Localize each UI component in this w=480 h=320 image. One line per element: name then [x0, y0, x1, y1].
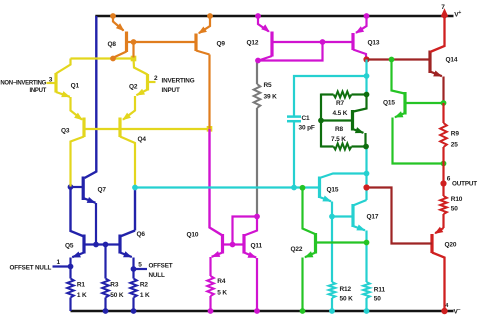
svg-text:R12: R12: [340, 286, 352, 293]
transistor Q1: [54, 73, 57, 93]
svg-text:Q1: Q1: [71, 83, 80, 90]
capacitor C1: [287, 115, 301, 118]
node Q15 collector junction: [389, 57, 395, 63]
wire Q3 collector to Q7 base: [71, 137, 85, 187]
resistor R9: [440, 123, 447, 147]
transistor Q9: [207, 13, 213, 19]
node Q12 collector junction: [255, 58, 261, 64]
resistor R7: [334, 92, 352, 98]
svg-text:25: 25: [451, 142, 458, 149]
transistor Q4: [118, 118, 121, 138]
wire Q13 collector node to Q14 base: [367, 58, 431, 60]
svg-text:1: 1: [57, 259, 61, 266]
wire R3 bottom: [104, 298, 106, 312]
wire Q11 emitter to V-: [256, 258, 258, 311]
wire R12 to V- rail: [331, 298, 333, 311]
node C1 top junction: [364, 73, 370, 79]
svg-text:INPUT: INPUT: [162, 87, 180, 94]
wire R4 to V- rail: [209, 296, 211, 311]
svg-text:6: 6: [447, 175, 451, 182]
wire multiplier left side: [320, 94, 322, 148]
wire Q9 collector node to Q10 collector: [210, 129, 223, 235]
node Q7 emitter junction: [93, 242, 99, 248]
wire R10 to Q20 emitter: [442, 214, 444, 228]
wire Q17 base lead: [332, 215, 353, 217]
resistor R2: [130, 279, 137, 298]
svg-text:Q11: Q11: [251, 243, 263, 250]
svg-text:7: 7: [441, 4, 445, 11]
svg-text:50 K: 50 K: [340, 295, 354, 302]
node R3 top junction: [103, 242, 109, 248]
wire Q13 node to VBE multiplier: [365, 60, 367, 95]
transistor Q14: [428, 51, 431, 74]
pin 1 OFFSET NULL lead: [53, 265, 71, 267]
node output pin 6: [440, 180, 446, 186]
wire Q4 node to Q15 base: [135, 186, 319, 188]
svg-text:R4: R4: [217, 278, 226, 285]
wire Q15 collector: [392, 60, 405, 94]
wire Q1 emitter to Q3 emitter: [71, 97, 83, 120]
wire Q22 collector: [303, 188, 316, 234]
wire Q22 emitter to V- rail: [301, 258, 303, 312]
wire Q8 base to collector node: [132, 42, 134, 58]
wire V+ rail: [95, 15, 453, 18]
svg-text:R10: R10: [451, 196, 463, 203]
transistor Q22: [314, 233, 317, 254]
node R5 / Q11 collector junction: [254, 214, 260, 220]
wire Q11 diode connection: [233, 217, 258, 245]
node Q22 base junction: [364, 240, 370, 246]
wire Q15 emitter to R12: [331, 217, 333, 283]
svg-text:NON−INVERTING: NON−INVERTING: [0, 81, 46, 87]
node Q8 base junction: [131, 39, 137, 45]
svg-text:30 pF: 30 pF: [299, 125, 315, 132]
svg-text:NULL: NULL: [149, 272, 165, 279]
wire C1 bottom branch: [293, 121, 295, 187]
svg-text:OFFSET: OFFSET: [149, 263, 173, 270]
node multiplier base junction: [318, 118, 324, 124]
wire Q6 emitter to R2: [132, 258, 134, 279]
svg-text:R2: R2: [140, 282, 149, 289]
pin 5 OFFSET NULL lead: [134, 268, 148, 270]
resistor R5: [254, 84, 261, 108]
wire Q12/Q13 base rail: [272, 41, 353, 43]
transistor Q3: [82, 118, 85, 138]
svg-text:R11: R11: [374, 287, 386, 294]
svg-text:Q17: Q17: [367, 213, 379, 220]
node Q15 base / Q14 emitter junction: [441, 100, 447, 106]
wire Q1/Q2 collector node: [71, 57, 134, 59]
node Q3 collector / Q7 base junction: [68, 184, 74, 190]
wire Q5 emitter to R1: [69, 258, 71, 279]
wire Q5/Q6 base rail: [84, 243, 120, 245]
svg-text:Q15: Q15: [383, 100, 395, 107]
resistor R11: [363, 282, 370, 298]
svg-text:50: 50: [451, 206, 458, 213]
transistor Q17: [351, 204, 354, 227]
svg-text:OUTPUT: OUTPUT: [452, 180, 477, 187]
svg-text:Q4: Q4: [138, 136, 147, 143]
svg-text:Q14: Q14: [446, 57, 458, 64]
resistor R8: [334, 144, 352, 150]
wire R1 to V- rail: [69, 298, 71, 312]
transistor Q11: [242, 234, 245, 254]
wire V- rail: [71, 310, 454, 313]
svg-text:1 K: 1 K: [140, 292, 150, 299]
node R8 right junction: [363, 144, 369, 150]
wire R5 to Q11 collector: [256, 108, 258, 217]
node Q13 collector junction: [363, 56, 369, 62]
transistor Q16 (VBE multiplier): [321, 119, 353, 121]
svg-text:2: 2: [154, 75, 158, 82]
wire R11 to V- rail: [365, 298, 367, 311]
transistor Q20: [435, 228, 443, 233]
node pin 1 junction: [68, 264, 74, 270]
svg-text:7.5 K: 7.5 K: [331, 136, 346, 143]
svg-text:R9: R9: [451, 131, 460, 138]
wire C1 top branch: [294, 76, 367, 116]
pin 7 V+ terminal: [441, 8, 449, 17]
wire V+ to Q7 collector: [85, 16, 97, 178]
node input pair collector junction: [131, 56, 137, 62]
transistor Q12: [255, 13, 261, 19]
wire Q4 collector: [120, 137, 135, 188]
node Q10/Q11 base junction: [230, 242, 236, 248]
transistor Q6: [118, 235, 121, 254]
svg-text:Q3: Q3: [61, 128, 70, 135]
resistor R4: [207, 276, 214, 296]
svg-text:INVERTING: INVERTING: [162, 78, 195, 85]
svg-text:50: 50: [374, 295, 381, 302]
svg-text:OFFSET NULL: OFFSET NULL: [10, 264, 52, 271]
node Q15 collector junction: [364, 171, 370, 177]
transistor Q15 (cyan): [318, 177, 321, 199]
wire Q12 diode connection: [258, 42, 323, 61]
wire Q15 emitter to output node: [393, 118, 444, 164]
node Q12 base junction: [320, 39, 326, 45]
svg-text:Q12: Q12: [247, 40, 259, 47]
transistor Q13: [364, 13, 370, 19]
wire Q14 emitter: [442, 77, 444, 104]
wire R9 top: [442, 103, 444, 123]
resistor R3: [102, 279, 109, 298]
wire VBE multiplier to Q17 collector: [365, 147, 367, 201]
svg-text:R1: R1: [77, 282, 86, 289]
svg-text:Q22: Q22: [291, 246, 303, 253]
node Q15 emitter / Q17 base junction: [329, 214, 335, 220]
svg-text:Q13: Q13: [368, 40, 380, 47]
svg-text:5 K: 5 K: [217, 290, 227, 297]
svg-text:5: 5: [138, 261, 142, 268]
wire multiplier bottom side: [321, 145, 334, 147]
wire Q7 base node to Q5 collector: [71, 187, 85, 237]
svg-text:3: 3: [49, 76, 53, 83]
wire Q10 emitter to R4: [209, 257, 211, 276]
wire Q17 emitter to R11: [365, 231, 367, 283]
resistor R10: [440, 196, 447, 214]
transistor Q8: [110, 13, 116, 19]
svg-text:R7: R7: [336, 100, 345, 107]
svg-text:R8: R8: [335, 126, 344, 133]
node Q22 collector junction: [300, 185, 306, 191]
svg-text:Q7: Q7: [98, 187, 107, 194]
wire R2 bottom: [132, 298, 134, 312]
wire R9 to output node: [442, 147, 444, 184]
wire R3 top: [104, 245, 106, 279]
svg-text:Q15: Q15: [327, 186, 339, 193]
wire Q3/Q4 base rail: [84, 128, 210, 130]
wire Q8/Q9 base rail: [134, 41, 197, 43]
node R7 right junction: [364, 92, 370, 98]
wire Q10/Q11 base rail: [223, 243, 245, 245]
wire Q12 collector to R5: [256, 61, 258, 85]
wire multiplier top side: [321, 93, 334, 95]
svg-text:Q9: Q9: [217, 41, 226, 48]
svg-text:Q2: Q2: [129, 84, 138, 91]
svg-text:1 K: 1 K: [77, 292, 87, 299]
svg-text:4.5 K: 4.5 K: [333, 110, 348, 117]
wire Q9 collector down: [208, 55, 210, 129]
node base rail / Q9 collector junction: [207, 126, 213, 132]
node Q15 emitter / output junction: [441, 161, 447, 167]
wire Q2 emitter to Q4 emitter: [123, 96, 135, 120]
svg-text:Q5: Q5: [65, 243, 74, 250]
transistor Q15 (green): [403, 92, 406, 115]
pin 4 V- terminal: [441, 308, 447, 314]
node C1 bottom junction: [291, 185, 297, 191]
resistor R12: [329, 282, 336, 298]
node compensation junction: [363, 184, 369, 190]
svg-text:50 K: 50 K: [110, 292, 124, 299]
svg-text:INPUT: INPUT: [29, 88, 46, 94]
wire Q4 collector node to Q6 collector: [134, 188, 136, 231]
node Q4/Q6/base junction: [132, 185, 138, 191]
svg-text:C1: C1: [302, 115, 311, 122]
svg-text:Q6: Q6: [137, 231, 146, 238]
transistor Q5: [82, 235, 85, 254]
wire Q7 emitter: [95, 203, 97, 245]
svg-text:R5: R5: [264, 82, 273, 89]
wire Q15 emitter: [331, 202, 333, 217]
svg-text:Q20: Q20: [445, 241, 457, 248]
transistor Q7: [82, 177, 85, 201]
node pin 5 junction: [131, 266, 137, 272]
node Q8 collector junction: [110, 56, 116, 62]
wire Q20 base path: [367, 188, 432, 244]
svg-text:Q8: Q8: [108, 41, 117, 48]
svg-text:Q10: Q10: [187, 232, 199, 239]
transistor Q2: [146, 74, 149, 91]
resistor R1: [67, 279, 74, 298]
wire output to R10: [442, 184, 444, 197]
svg-text:39 K: 39 K: [264, 94, 278, 101]
transistor Q10: [221, 234, 224, 254]
svg-text:R3: R3: [110, 282, 119, 289]
